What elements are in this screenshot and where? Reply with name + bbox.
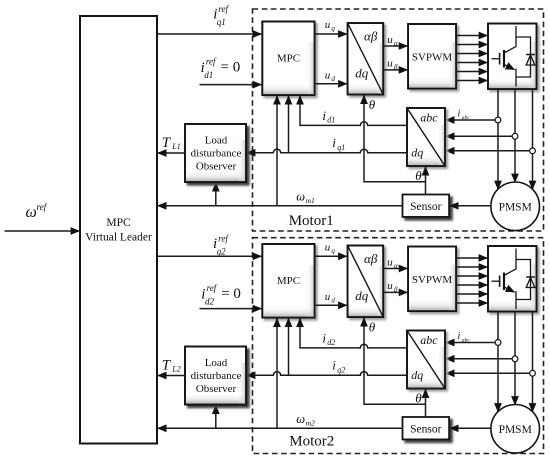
svg-text:Motor1: Motor1 xyxy=(289,213,334,229)
svg-text:disturbance: disturbance xyxy=(191,370,242,382)
wire omega_m1 branch to observer xyxy=(215,183,217,206)
svg-text:i: i xyxy=(332,135,336,150)
MPC controller block motor2 xyxy=(262,244,314,318)
wire i_d2_ref = 0 input xyxy=(200,308,262,310)
wire i_d2 feedback xyxy=(300,318,407,348)
motor1 dashed boundary box xyxy=(253,9,544,231)
wire phase a motor2 xyxy=(497,312,499,413)
SVPWM block motor1 xyxy=(408,24,456,89)
svg-text:q2: q2 xyxy=(337,365,345,374)
svg-text:SVPWM: SVPWM xyxy=(412,51,453,63)
Sensor block motor1 xyxy=(403,195,450,217)
svg-text:d1: d1 xyxy=(204,70,213,80)
label u_beta motor2 xyxy=(387,280,398,294)
label u_q motor2 xyxy=(325,242,336,255)
svg-text:αβ: αβ xyxy=(364,251,378,266)
svg-text:d2: d2 xyxy=(205,297,215,307)
current sensor tap phase c motor2 xyxy=(530,370,536,376)
svg-text:abc: abc xyxy=(462,115,471,121)
svg-text:Sensor: Sensor xyxy=(410,201,441,213)
svg-text:q1: q1 xyxy=(217,17,226,27)
svg-text:i: i xyxy=(322,330,326,345)
label i_q1 xyxy=(332,135,345,152)
wire i_d1 feedback xyxy=(300,96,407,126)
label i_q2_ref xyxy=(213,234,229,257)
wire omega_m1 feedback to leader xyxy=(158,205,403,207)
svg-text:= 0: = 0 xyxy=(221,60,241,76)
svg-text:q1: q1 xyxy=(337,143,345,152)
wire i_q1 branch to MPC xyxy=(288,96,290,153)
svg-text:Load: Load xyxy=(205,135,228,147)
svg-text:Motor2: Motor2 xyxy=(289,433,334,449)
svg-text:abc: abc xyxy=(420,333,438,347)
svg-text:β: β xyxy=(393,63,398,71)
Sensor block motor2 xyxy=(403,417,450,439)
svg-text:= 0: = 0 xyxy=(221,286,241,302)
label i_d2_ref = 0 xyxy=(201,283,241,306)
dq to alpha-beta transform block motor1 xyxy=(348,23,384,95)
svg-text:i: i xyxy=(322,108,326,123)
MPC controller block motor1 xyxy=(262,22,314,96)
wire u_beta motor2 xyxy=(383,291,407,293)
svg-text:d: d xyxy=(331,297,335,305)
svg-text:disturbance: disturbance xyxy=(191,148,242,160)
wire phase c motor2 xyxy=(532,312,534,413)
svg-text:MPC: MPC xyxy=(277,275,300,287)
wire omega_ref input xyxy=(5,230,80,232)
svg-text:u: u xyxy=(325,19,331,31)
label u_d motor1 xyxy=(325,70,336,83)
wire u_alpha motor2 xyxy=(383,268,407,270)
label i_d2 xyxy=(322,330,335,347)
svg-text:d2: d2 xyxy=(327,338,335,347)
wire gate signal 3 motor1 xyxy=(456,53,487,55)
svg-text:q2: q2 xyxy=(217,247,227,257)
inverter block motor1 xyxy=(488,24,537,90)
current sensor tap phase c motor1 xyxy=(530,148,536,154)
current sensor tap phase b motor1 xyxy=(512,133,518,139)
wire u_q motor2 xyxy=(315,255,347,257)
svg-text:SVPWM: SVPWM xyxy=(412,274,453,286)
svg-text:α: α xyxy=(394,262,398,270)
svg-text:Sensor: Sensor xyxy=(410,424,441,436)
svg-text:ref: ref xyxy=(206,57,217,67)
wire omega_m2 branch to MPC xyxy=(276,318,278,428)
wire phase b motor1 xyxy=(514,89,516,183)
wire theta to alpha-beta/dq motor2 xyxy=(364,318,426,405)
abc to dq transform block motor2 xyxy=(407,331,445,389)
wire gate signal 2 motor1 xyxy=(456,44,487,46)
wire measured current phase a motor1 xyxy=(446,119,496,121)
svg-text:MPC: MPC xyxy=(277,53,300,65)
label i_abc motor2 xyxy=(458,331,471,343)
current sensor tap phase b motor2 xyxy=(512,356,518,362)
svg-text:ω: ω xyxy=(26,204,37,221)
wire gate signal 3 motor2 xyxy=(456,275,487,277)
label u_q motor1 xyxy=(325,19,336,32)
label i_q2 xyxy=(332,358,345,375)
wire omega_m2 branch to observer xyxy=(215,405,217,428)
wire measured current phase a motor2 xyxy=(446,342,496,344)
wire gate signal 6 motor2 xyxy=(456,302,487,304)
wire i_q1_ref from leader to MPC1 xyxy=(157,33,262,35)
svg-text:ω: ω xyxy=(296,412,305,426)
motor2 dashed boundary box xyxy=(253,238,544,454)
label omega_m2 xyxy=(296,412,315,427)
svg-text:αβ: αβ xyxy=(364,29,378,44)
svg-text:Load: Load xyxy=(205,357,228,369)
svg-text:q: q xyxy=(331,247,335,255)
label u_beta motor1 xyxy=(387,58,398,72)
wire gate signal 4 motor2 xyxy=(456,284,487,286)
svg-text:θ: θ xyxy=(369,320,376,335)
label omega_ref xyxy=(26,202,48,221)
current sensor tap phase a motor2 xyxy=(495,340,501,346)
svg-text:u: u xyxy=(387,58,393,70)
svg-text:i: i xyxy=(458,109,461,120)
PMSM motor 1 xyxy=(491,182,540,231)
label u_d motor2 xyxy=(325,291,336,304)
svg-text:dq: dq xyxy=(355,66,369,81)
svg-text:u: u xyxy=(387,280,393,292)
wire phase b motor2 xyxy=(514,312,516,406)
wire T_L2 to leader xyxy=(158,375,185,377)
wire omega_m2 feedback to leader xyxy=(158,427,403,429)
svg-text:MPC: MPC xyxy=(106,217,131,229)
svg-text:PMSM: PMSM xyxy=(499,202,532,214)
svg-text:abc: abc xyxy=(462,337,471,343)
svg-text:ref: ref xyxy=(37,202,48,212)
Load disturbance Observer block motor2 xyxy=(185,347,246,405)
svg-text:L2: L2 xyxy=(171,364,180,373)
svg-text:i: i xyxy=(458,331,461,342)
abc to dq transform block motor1 xyxy=(407,108,445,166)
wire u_q motor1 xyxy=(315,33,347,35)
label u_alpha motor2 xyxy=(387,256,398,270)
wire phase c motor1 xyxy=(532,89,534,190)
label T_L1 xyxy=(162,135,181,151)
PMSM motor 2 xyxy=(491,405,540,454)
svg-text:θ: θ xyxy=(415,168,422,183)
wire PMSM to Sensor motor1 xyxy=(450,205,491,207)
wire u_beta motor1 xyxy=(383,69,407,71)
block MPC Virtual Leader xyxy=(80,16,157,444)
wire gate signal 4 motor1 xyxy=(456,62,487,64)
wire i_q1 feedback to observer xyxy=(247,149,408,153)
svg-text:L1: L1 xyxy=(171,142,180,151)
svg-text:θ: θ xyxy=(369,97,376,112)
wire gate signal 1 motor1 xyxy=(456,35,487,37)
svg-text:α: α xyxy=(394,39,398,47)
wire theta to abc/dq motor1 xyxy=(425,167,427,195)
wire u_alpha motor1 xyxy=(383,45,407,47)
wire phase a motor1 xyxy=(497,89,499,190)
wire omega_m1 branch to MPC xyxy=(276,96,278,206)
svg-text:m2: m2 xyxy=(306,418,315,427)
svg-text:u: u xyxy=(325,70,331,82)
svg-text:u: u xyxy=(325,242,331,254)
svg-text:dq: dq xyxy=(411,146,423,160)
wire T_L1 to leader xyxy=(158,152,185,154)
wire gate signal 6 motor1 xyxy=(456,80,487,82)
svg-text:ref: ref xyxy=(218,4,229,14)
dq to alpha-beta transform block motor2 xyxy=(348,246,384,318)
wire i_q2_ref from leader to MPC2 xyxy=(157,255,262,257)
wire gate signal 1 motor2 xyxy=(456,257,487,259)
wire measured current phase c motor1 xyxy=(446,150,530,152)
wire gate signal 2 motor2 xyxy=(456,266,487,268)
svg-text:d: d xyxy=(331,75,335,83)
wire gate signal 5 motor1 xyxy=(456,71,487,73)
wire measured current phase b motor1 xyxy=(446,135,513,137)
svg-text:dq: dq xyxy=(355,288,369,303)
wire measured current phase b motor2 xyxy=(446,358,513,360)
label i_q1_ref xyxy=(213,4,229,27)
svg-text:dq: dq xyxy=(411,368,423,382)
wire i_q2 feedback to observer xyxy=(247,372,408,376)
label i_d1 xyxy=(322,108,335,125)
svg-text:i: i xyxy=(332,358,336,373)
svg-text:θ: θ xyxy=(415,391,422,406)
svg-text:u: u xyxy=(387,256,393,268)
label i_d1_ref = 0 xyxy=(201,57,241,80)
label u_alpha motor1 xyxy=(387,34,398,48)
label T_L2 xyxy=(162,358,181,374)
svg-text:β: β xyxy=(393,286,398,294)
wire u_d motor1 xyxy=(315,83,347,85)
svg-text:d1: d1 xyxy=(327,116,335,125)
wire measured current phase c motor2 xyxy=(446,372,530,374)
wire i_d1_ref = 0 input xyxy=(200,84,262,86)
svg-text:q: q xyxy=(331,25,335,33)
svg-text:ref: ref xyxy=(218,234,229,244)
svg-text:m1: m1 xyxy=(306,196,315,205)
svg-text:Observer: Observer xyxy=(196,383,237,395)
svg-text:PMSM: PMSM xyxy=(499,424,532,436)
inverter block motor2 xyxy=(488,246,537,312)
svg-text:Virtual Leader: Virtual Leader xyxy=(85,232,152,244)
wire theta to alpha-beta/dq motor1 xyxy=(364,95,426,182)
svg-text:Observer: Observer xyxy=(196,161,237,173)
wire PMSM to Sensor motor2 xyxy=(450,427,491,429)
SVPWM block motor2 xyxy=(408,247,456,312)
svg-text:ω: ω xyxy=(296,190,305,204)
Load disturbance Observer block motor1 xyxy=(185,124,246,182)
wire i_q2 branch to MPC xyxy=(288,318,290,375)
wire gate signal 5 motor2 xyxy=(456,293,487,295)
svg-text:u: u xyxy=(387,34,393,46)
wire u_d motor2 xyxy=(315,304,347,306)
svg-text:ref: ref xyxy=(207,283,218,293)
label i_abc motor1 xyxy=(458,109,471,121)
current sensor tap phase a motor1 xyxy=(495,117,501,123)
label omega_m1 xyxy=(296,190,315,205)
svg-text:u: u xyxy=(325,291,331,303)
svg-text:abc: abc xyxy=(420,111,438,125)
wire theta to abc/dq motor2 xyxy=(425,389,427,417)
